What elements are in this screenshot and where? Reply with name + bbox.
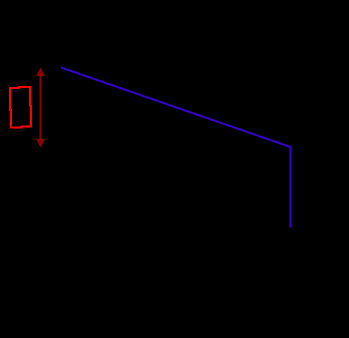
blue ramp line (diagonal then vertical) <box>61 68 291 228</box>
arrowhead top <box>36 68 45 77</box>
dark red double-headed arrow shaft <box>40 70 42 144</box>
arrowhead bottom <box>36 139 45 147</box>
red rectangle (hand-drawn block) <box>10 87 31 128</box>
